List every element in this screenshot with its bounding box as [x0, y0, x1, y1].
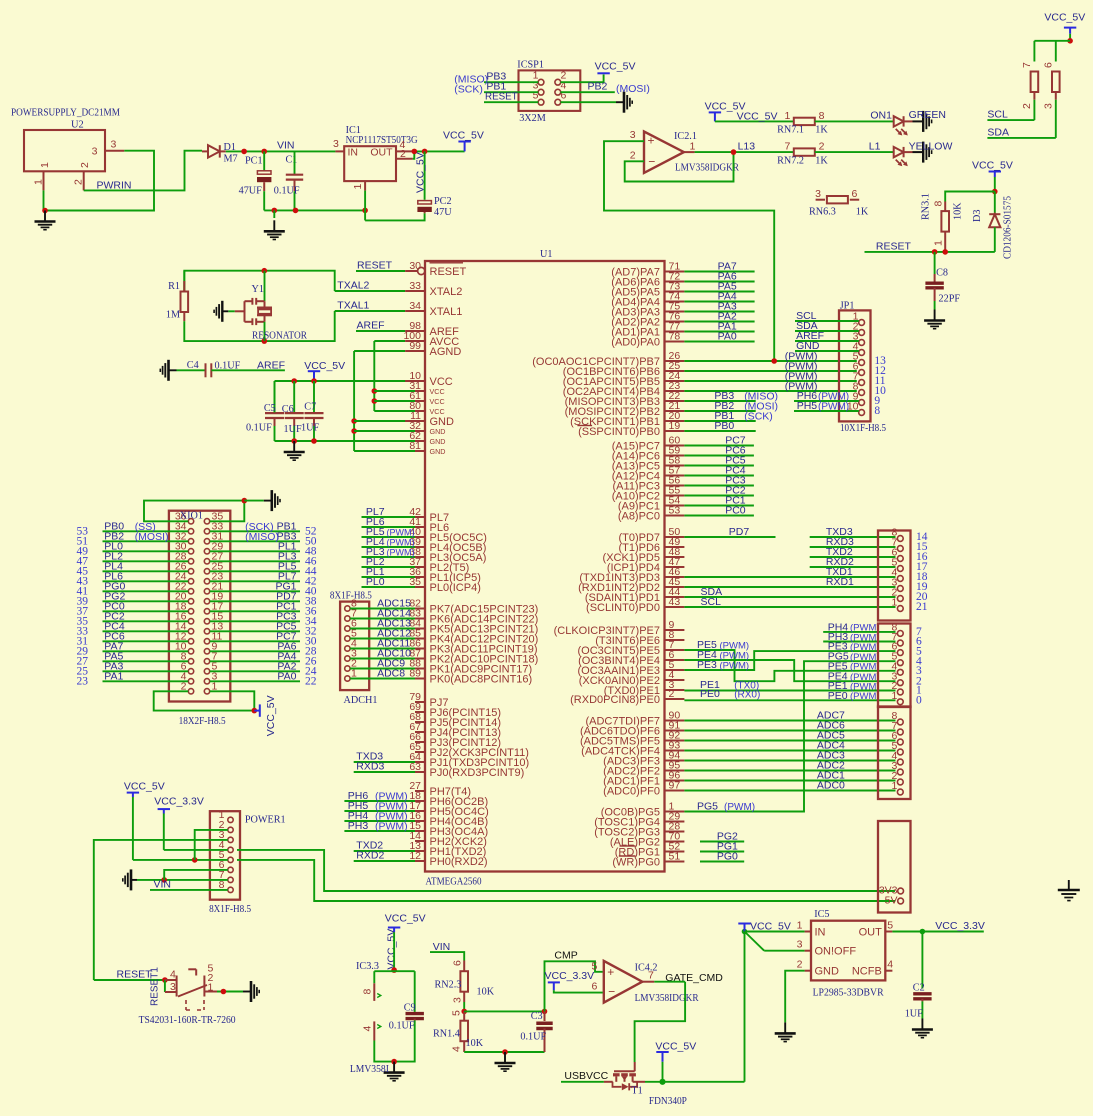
svg-text:VCC_5V: VCC_5V: [750, 920, 791, 932]
svg-text:(SSPCINT0)PB0: (SSPCINT0)PB0: [578, 426, 660, 438]
svg-text:6: 6: [1042, 62, 1054, 68]
svg-text:(PWM): (PWM): [720, 661, 750, 672]
svg-text:1: 1: [784, 110, 790, 122]
svg-text:TS42031-160R-TR-7260: TS42031-160R-TR-7260: [139, 1015, 236, 1026]
svg-text:3: 3: [333, 138, 339, 150]
svg-text:ON!OFF: ON!OFF: [815, 946, 857, 958]
svg-text:NCP1117ST50T3G: NCP1117ST50T3G: [346, 135, 419, 146]
svg-text:L1: L1: [869, 141, 881, 153]
svg-text:6: 6: [591, 980, 597, 992]
svg-text:78: 78: [669, 330, 681, 342]
svg-text:VCC_5V: VCC_5V: [124, 781, 165, 793]
svg-text:8X1F-H8.5: 8X1F-H8.5: [209, 904, 251, 915]
svg-text:SCL: SCL: [987, 109, 1008, 121]
svg-text:3: 3: [170, 981, 176, 993]
svg-text:53: 53: [669, 504, 681, 516]
svg-text:3: 3: [1042, 103, 1054, 109]
svg-text:PH0(RXD2): PH0(RXD2): [430, 856, 488, 868]
svg-text:C1: C1: [286, 155, 298, 166]
svg-text:VCC_5V: VCC_5V: [385, 913, 426, 925]
svg-text:VCC: VCC: [430, 387, 445, 396]
svg-text:43: 43: [669, 596, 681, 608]
svg-text:IN: IN: [815, 926, 826, 938]
svg-text:C5: C5: [264, 403, 276, 414]
svg-text:PC0: PC0: [725, 505, 746, 517]
svg-text:LMV358IDGKR: LMV358IDGKR: [675, 163, 739, 174]
svg-text:GND: GND: [815, 966, 840, 978]
svg-text:1UF: 1UF: [905, 1009, 923, 1020]
svg-text:LP2985-33DBVR: LP2985-33DBVR: [813, 987, 884, 998]
svg-text:VCC_5V: VCC_5V: [385, 929, 397, 970]
svg-text:IN: IN: [348, 147, 359, 159]
svg-text:ON1: ON1: [870, 110, 892, 122]
svg-text:USBVCC: USBVCC: [564, 1070, 608, 1082]
svg-text:+: +: [648, 134, 655, 148]
svg-text:D3: D3: [972, 210, 983, 222]
svg-text:8: 8: [819, 110, 825, 122]
svg-text:VIN: VIN: [154, 878, 172, 890]
svg-text:PG0: PG0: [717, 851, 738, 863]
svg-text:NCFB: NCFB: [852, 966, 882, 978]
svg-text:1UF: 1UF: [301, 423, 319, 434]
svg-text:RESONATOR: RESONATOR: [252, 331, 307, 342]
svg-text:5V: 5V: [885, 894, 898, 906]
svg-text:U2: U2: [71, 120, 84, 131]
svg-text:VCC_3.3V: VCC_3.3V: [935, 920, 985, 932]
svg-text:PB2: PB2: [588, 81, 608, 93]
svg-text:LMV358I: LMV358I: [350, 1064, 390, 1075]
svg-text:GND: GND: [430, 427, 446, 436]
svg-text:2: 2: [630, 150, 636, 162]
svg-text:VCC: VCC: [430, 407, 445, 416]
svg-text:6: 6: [451, 960, 463, 966]
svg-text:PL0(ICP4): PL0(ICP4): [430, 582, 481, 594]
svg-text:PG5: PG5: [697, 801, 718, 813]
svg-text:IC4.2: IC4.2: [635, 962, 658, 973]
svg-text:PA0: PA0: [277, 671, 296, 683]
svg-text:RXD2: RXD2: [356, 849, 384, 861]
svg-text:PB0: PB0: [714, 420, 734, 432]
svg-text:3: 3: [111, 139, 117, 151]
svg-text:4: 4: [170, 969, 176, 981]
svg-text:OUT: OUT: [859, 926, 883, 938]
svg-text:2: 2: [73, 179, 85, 185]
svg-text:3: 3: [92, 146, 98, 158]
svg-text:GND: GND: [430, 437, 446, 446]
svg-text:(WR)PG0: (WR)PG0: [612, 856, 660, 868]
svg-text:ADC8: ADC8: [377, 668, 405, 680]
svg-text:AREF: AREF: [357, 319, 385, 331]
svg-text:XTAL1: XTAL1: [430, 306, 463, 318]
svg-text:PH3: PH3: [348, 820, 369, 832]
svg-text:(PWM): (PWM): [387, 528, 415, 538]
svg-text:10X1F-H8.5: 10X1F-H8.5: [840, 423, 886, 434]
svg-text:RESET: RESET: [430, 266, 467, 278]
svg-text:POWERSUPPLY_DC21MM: POWERSUPPLY_DC21MM: [11, 108, 120, 119]
svg-text:U1: U1: [540, 249, 552, 260]
svg-text:2: 2: [797, 959, 803, 971]
svg-text:XIO1: XIO1: [180, 511, 203, 522]
svg-text:RN6.3: RN6.3: [809, 207, 836, 218]
svg-text:1: 1: [891, 690, 897, 702]
svg-text:R1: R1: [168, 281, 180, 292]
svg-text:VIN: VIN: [277, 140, 295, 152]
svg-text:PA1: PA1: [104, 671, 123, 683]
svg-text:L13: L13: [738, 141, 756, 153]
svg-text:8: 8: [933, 201, 945, 207]
svg-text:33: 33: [409, 280, 421, 292]
svg-text:SDA: SDA: [987, 126, 1009, 138]
svg-text:RESET: RESET: [357, 259, 393, 271]
svg-text:1: 1: [690, 141, 696, 153]
svg-text:0: 0: [916, 695, 922, 707]
svg-text:2: 2: [1021, 103, 1033, 109]
svg-text:VCC_5V: VCC_5V: [265, 695, 277, 736]
svg-text:47U: 47U: [434, 207, 452, 218]
svg-text:34: 34: [409, 300, 421, 312]
svg-text:PE0: PE0: [828, 690, 848, 702]
svg-text:3: 3: [630, 129, 636, 141]
svg-text:RESET: RESET: [117, 968, 153, 980]
svg-text:3X2M: 3X2M: [519, 113, 546, 124]
svg-text:0.1UF: 0.1UF: [274, 186, 300, 197]
svg-text:8: 8: [362, 989, 374, 995]
svg-text:C4: C4: [187, 360, 199, 371]
svg-text:C6: C6: [282, 404, 294, 415]
svg-text:1: 1: [933, 240, 945, 246]
svg-text:(PWM): (PWM): [375, 821, 408, 833]
svg-text:RN1.4: RN1.4: [433, 1029, 460, 1040]
svg-text:6: 6: [852, 188, 858, 200]
svg-text:2: 2: [669, 688, 675, 700]
svg-text:10K: 10K: [466, 1038, 484, 1049]
svg-text:PC2: PC2: [434, 196, 452, 207]
svg-text:1: 1: [33, 179, 45, 185]
svg-text:7: 7: [648, 970, 654, 982]
svg-text:VCC_5V: VCC_5V: [595, 61, 636, 73]
svg-text:(SCK): (SCK): [454, 84, 483, 96]
svg-text:RESET: RESET: [485, 92, 518, 103]
svg-text:(SCK): (SCK): [744, 411, 773, 423]
svg-text:FDN340P: FDN340P: [649, 1096, 687, 1107]
svg-text:2: 2: [79, 162, 91, 168]
svg-text:C9: C9: [404, 1003, 416, 1014]
svg-text:CMP: CMP: [554, 949, 577, 961]
svg-text:22: 22: [305, 676, 317, 688]
svg-text:VIN: VIN: [433, 941, 451, 953]
svg-text:VCC_5V: VCC_5V: [972, 160, 1013, 172]
svg-text:VCC_5V: VCC_5V: [737, 111, 778, 123]
svg-text:PWRIN: PWRIN: [97, 180, 132, 192]
svg-text:1K: 1K: [856, 207, 869, 218]
svg-text:7: 7: [1021, 62, 1033, 68]
svg-text:C2: C2: [913, 983, 925, 994]
svg-text:1K: 1K: [815, 125, 828, 136]
svg-text:C3: C3: [531, 1011, 543, 1022]
svg-text:−: −: [648, 154, 655, 168]
svg-text:(RXD0PCIN8)PE0: (RXD0PCIN8)PE0: [570, 694, 660, 706]
svg-text:19: 19: [669, 420, 681, 432]
svg-text:(PWM): (PWM): [387, 548, 415, 558]
svg-text:XTAL2: XTAL2: [430, 286, 463, 298]
svg-text:18X2F-H8.5: 18X2F-H8.5: [179, 716, 226, 727]
svg-text:SCL: SCL: [701, 596, 722, 608]
svg-text:TXAL1: TXAL1: [337, 299, 369, 311]
svg-text:0.1UF: 0.1UF: [215, 361, 241, 372]
svg-text:ADCH1: ADCH1: [344, 695, 378, 706]
svg-text:ATMEGA2560: ATMEGA2560: [426, 877, 482, 888]
svg-text:(PWM): (PWM): [850, 662, 880, 673]
svg-text:30: 30: [409, 260, 421, 272]
svg-text:GND: GND: [430, 447, 446, 456]
svg-text:(AD0)PA0: (AD0)PA0: [611, 336, 660, 348]
svg-text:GREEN: GREEN: [909, 109, 946, 121]
svg-text:RN7.2: RN7.2: [777, 156, 804, 167]
svg-text:VCC: VCC: [430, 397, 445, 406]
svg-text:97: 97: [669, 779, 681, 791]
svg-text:RN2.3: RN2.3: [435, 980, 462, 991]
svg-text:(SCLINT0)PD0: (SCLINT0)PD0: [586, 602, 660, 614]
svg-text:AGND: AGND: [430, 346, 462, 358]
svg-text:PL0: PL0: [366, 576, 385, 588]
svg-text:1: 1: [891, 780, 897, 792]
svg-text:IC5: IC5: [814, 909, 829, 920]
svg-text:21: 21: [916, 601, 928, 613]
svg-text:PC1: PC1: [245, 156, 263, 167]
svg-text:(RX0): (RX0): [734, 690, 760, 701]
svg-text:−: −: [608, 985, 615, 999]
svg-text:PA0: PA0: [718, 331, 737, 343]
svg-text:VCC_5V: VCC_5V: [304, 360, 345, 372]
svg-text:5: 5: [451, 1010, 463, 1016]
svg-text:+: +: [607, 965, 614, 979]
svg-text:PE3: PE3: [697, 659, 717, 671]
svg-text:RN7.1: RN7.1: [777, 125, 804, 136]
svg-text:7: 7: [784, 141, 790, 153]
svg-text:C8: C8: [936, 268, 948, 279]
svg-text:VCC_5V: VCC_5V: [1044, 11, 1085, 23]
svg-text:(MOSI): (MOSI): [135, 531, 169, 543]
svg-text:CD1206-S01575: CD1206-S01575: [1003, 196, 1014, 259]
svg-text:4: 4: [451, 1046, 463, 1052]
svg-text:PH5: PH5: [797, 400, 818, 412]
svg-text:RESET1: RESET1: [150, 967, 161, 1006]
svg-text:(A8)PC0: (A8)PC0: [618, 510, 660, 522]
svg-text:OUT: OUT: [370, 147, 393, 159]
svg-text:TXAL2: TXAL2: [337, 279, 369, 291]
svg-text:GND: GND: [796, 340, 820, 352]
svg-text:C7: C7: [304, 402, 316, 413]
svg-text:2: 2: [819, 141, 825, 153]
svg-text:0.1UF: 0.1UF: [520, 1032, 546, 1043]
svg-text:ICSP1: ICSP1: [517, 60, 544, 71]
svg-text:1: 1: [352, 184, 364, 190]
svg-text:1K: 1K: [815, 156, 828, 167]
svg-text:10K: 10K: [953, 202, 964, 220]
svg-text:VCC_3.3V: VCC_3.3V: [154, 796, 204, 808]
svg-text:3: 3: [815, 188, 821, 200]
svg-text:PD7: PD7: [729, 526, 750, 538]
svg-text:81: 81: [409, 440, 421, 452]
svg-text:51: 51: [669, 850, 681, 862]
svg-text:47UF: 47UF: [239, 186, 263, 197]
svg-text:4: 4: [362, 1026, 374, 1032]
svg-text:1: 1: [39, 162, 51, 168]
svg-text:RN3.1: RN3.1: [921, 193, 932, 220]
svg-text:23: 23: [77, 676, 89, 688]
svg-text:2: 2: [400, 148, 406, 160]
svg-text:Y1: Y1: [252, 284, 264, 295]
svg-text:POWER1: POWER1: [245, 815, 286, 826]
svg-text:(PWM): (PWM): [724, 802, 755, 813]
svg-text:0.1UF: 0.1UF: [246, 423, 272, 434]
svg-text:99: 99: [409, 340, 421, 352]
svg-text:0.1UF: 0.1UF: [389, 1021, 415, 1032]
svg-text:LMV358IDGKR: LMV358IDGKR: [635, 993, 699, 1004]
svg-text:22PF: 22PF: [939, 294, 961, 305]
svg-text:1: 1: [891, 597, 897, 609]
svg-text:1: 1: [797, 920, 803, 932]
svg-text:PE0: PE0: [700, 688, 720, 700]
svg-text:3: 3: [451, 997, 463, 1003]
svg-text:(MOSI): (MOSI): [616, 83, 650, 95]
svg-text:10K: 10K: [477, 987, 495, 998]
svg-text:1M: 1M: [166, 310, 180, 321]
svg-text:RXD3: RXD3: [356, 760, 384, 772]
svg-text:PK0(ADC8PCINT16): PK0(ADC8PCINT16): [430, 673, 533, 685]
svg-text:(MISO): (MISO): [245, 531, 279, 543]
svg-text:T1: T1: [631, 1086, 642, 1097]
svg-text:8: 8: [874, 405, 880, 417]
svg-text:VCC_5V: VCC_5V: [655, 1040, 696, 1052]
svg-text:RXD1: RXD1: [826, 576, 854, 588]
svg-text:VCC_5V: VCC_5V: [443, 130, 484, 142]
svg-text:(PWM): (PWM): [818, 402, 849, 413]
svg-text:5: 5: [887, 920, 893, 932]
svg-text:ADC0: ADC0: [817, 780, 845, 792]
svg-text:(ADC0)PF0: (ADC0)PF0: [603, 785, 660, 797]
svg-text:1UF: 1UF: [284, 424, 302, 435]
svg-text:3: 3: [797, 939, 803, 951]
svg-text:VCC_3.3V: VCC_3.3V: [545, 970, 595, 982]
svg-text:4: 4: [887, 959, 893, 971]
svg-text:VCC_5V: VCC_5V: [415, 152, 427, 193]
svg-text:RESET: RESET: [876, 240, 912, 252]
svg-text:YELLOW: YELLOW: [909, 141, 953, 153]
svg-text:PJ0(RXD3PCINT9): PJ0(RXD3PCINT9): [430, 767, 525, 779]
svg-text:M7: M7: [224, 154, 238, 165]
svg-text:(PWM): (PWM): [387, 538, 415, 548]
svg-text:AREF: AREF: [257, 359, 285, 371]
svg-text:(PWM): (PWM): [850, 691, 880, 702]
